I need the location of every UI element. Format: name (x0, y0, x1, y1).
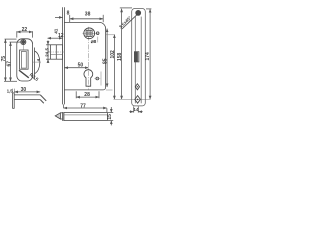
dim 12 line (48, 37, 63, 39)
front latch opening light edge (138, 52, 140, 62)
latch bolt side view (50, 45, 62, 59)
bottom view inner line (64, 114, 108, 116)
dim line 38 (70, 18, 103, 20)
dim 77 line (64, 107, 107, 109)
faceplate side view front line (62, 7, 64, 104)
svg-text:75: 75 (1, 56, 7, 62)
hub knurl lines (86, 30, 92, 36)
svg-text:30: 30 (21, 87, 27, 93)
dim line 22 (17, 31, 32, 33)
dim 24,5 arrows (47, 41, 49, 63)
dim 158 vertical line (121, 9, 123, 99)
strike left extension lines (4, 39, 20, 81)
dim 28 extension lines (76, 91, 99, 98)
dim 102 vertical line (113, 35, 115, 100)
strike side view centerline (33, 61, 41, 63)
strike plate P1 outline (17, 39, 33, 81)
svg-text:67: 67 (6, 61, 12, 67)
svg-text:174: 174 (145, 52, 151, 61)
svg-text:41: 41 (54, 28, 59, 34)
dim line 67 vertical (10, 42, 12, 81)
dim 15 extension lines (108, 113, 113, 121)
front latch opening (134, 51, 139, 62)
bottom view latch shaft (60, 113, 62, 119)
euro cylinder hole (84, 70, 93, 87)
svg-text:102: 102 (110, 50, 116, 59)
latch centerline (48, 51, 65, 53)
strike bottom view plate bar (13, 93, 15, 108)
svg-text:50: 50 (78, 62, 84, 68)
strike bottom view flange top (14, 94, 40, 96)
latch bevel line (55, 45, 57, 59)
front faceplate outline (132, 9, 146, 106)
svg-text:77: 77 (80, 103, 86, 109)
latch inner split line (50, 53, 62, 55)
hub follower circle (84, 28, 95, 39)
dim 22 extension lines (17, 31, 33, 37)
screw post near hub (96, 32, 99, 35)
cylinder screw hole centerline (94, 78, 100, 80)
strike side view back line (34, 48, 36, 80)
dim 38 extension lines (70, 15, 104, 22)
bottom view projection line (63, 104, 65, 108)
top extension line left of plate (120, 7, 132, 9)
lower diamond hole (135, 96, 141, 104)
svg-text:15: 15 (107, 114, 113, 120)
dim 15 vertical line (110, 107, 112, 125)
dim 77 right extension (106, 108, 108, 112)
internal line right of cylinder (100, 72, 102, 86)
dim 50 line (65, 67, 89, 69)
strike bottom view flange bottom (14, 99, 40, 101)
bottom view latch tip (55, 113, 60, 119)
body bottom extension right (106, 89, 113, 91)
strike plate latch cutout outer (20, 50, 29, 69)
dim line 75 vertical (4, 39, 6, 81)
latch extension lines (46, 45, 50, 59)
leader below post (97, 37, 99, 43)
dim 174 top extension (146, 8, 151, 10)
dim 174 vertical line (149, 9, 151, 99)
bottom dim 14 arrows (129, 111, 142, 113)
faceplate side view back line (63, 7, 65, 104)
strike bottom view lip diagonal (40, 95, 46, 103)
upper diamond hole (135, 84, 139, 90)
svg-text:28: 28 (84, 92, 90, 98)
dim line 30 (15, 91, 41, 93)
svg-text:85: 85 (103, 58, 109, 64)
leader line R2,5 (19, 70, 29, 78)
svg-text:38: 38 (85, 11, 91, 17)
hub vertical centerline (88, 27, 90, 90)
svg-text:24,5: 24,5 (44, 48, 49, 57)
front faceplate inner rib lines (135, 17, 141, 104)
svg-text:12: 12 (58, 33, 64, 39)
dim 24,5 vertical line (47, 41, 49, 64)
bottom dim 14 extension lines (134, 106, 139, 112)
screw hole leader line (122, 14, 138, 29)
front plate screw hole (136, 10, 141, 15)
svg-text:22: 22 (22, 27, 28, 33)
svg-text:3,5x45°: 3,5x45° (118, 15, 132, 29)
svg-text:158: 158 (117, 52, 123, 61)
bottom extension to diamond (114, 98, 151, 100)
strike side view lip curve (35, 51, 40, 74)
dim line 28 (76, 96, 98, 98)
hub square 8mm (86, 30, 92, 36)
bottom view body (64, 113, 108, 121)
strike bottom view thickness dim (7, 89, 15, 94)
hub horizontal centerline (82, 32, 98, 34)
strike plate latch cutout inner (21, 52, 26, 69)
svg-text:⌀8: ⌀8 (91, 39, 97, 45)
hub center extension line (106, 34, 115, 36)
lock body outline (64, 22, 105, 90)
svg-text:8: 8 (67, 11, 70, 17)
dim 8 line (55, 16, 62, 18)
bottom view faceplate lines (63, 112, 64, 121)
strike plate screw hole (21, 39, 26, 49)
svg-text:14: 14 (133, 107, 139, 112)
cylinder screw hole (96, 77, 99, 80)
dim 85 vertical line (106, 29, 108, 87)
